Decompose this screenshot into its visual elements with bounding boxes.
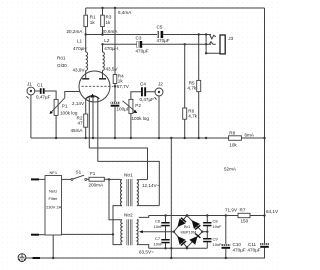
connector J3 contacts [198,33,200,35]
svg-text:C5: C5 [157,25,163,30]
svg-text:100k log: 100k log [132,116,150,121]
svg-text:43,9V: 43,9V [73,67,86,72]
wire P1 wiper to grid [65,92,81,98]
svg-text:1k: 1k [118,79,124,84]
svg-text:100µF: 100µF [117,107,130,112]
connector J1 [27,87,35,95]
capacitor C9 [206,232,208,249]
potentiometer P2 [129,99,133,113]
svg-text:C4: C4 [140,82,146,87]
svg-text:10nF: 10nF [213,242,223,247]
svg-text:1k: 1k [90,20,96,25]
wire DC plus rail y=215.5 [149,215,265,217]
wire heater lead right [97,98,99,161]
wire NF1 bottom pin to chassis [52,235,54,258]
svg-text:C8: C8 [213,219,219,224]
wire neutral rail [113,206,122,245]
svg-text:R1: R1 [90,14,96,19]
svg-text:10nF: 10nF [213,224,223,229]
svg-text:57,7V: 57,7V [117,84,130,89]
svg-text:100k log: 100k log [60,111,78,116]
capacitor C8 [206,216,208,232]
wire right vertical rail [264,8,266,243]
svg-text:R3: R3 [106,14,112,19]
svg-text:470µF: 470µF [233,248,246,253]
wire cathode to R2 [85,99,87,114]
mains stub top left [31,178,39,180]
resistor R6 [184,44,186,138]
connector J3 [220,35,225,54]
capacitor C10 [225,216,227,245]
svg-text:C7: C7 [155,236,161,241]
wire top bus [86,7,265,9]
svg-text:Gl30: Gl30 [57,63,67,68]
mains stub bottom [33,257,41,259]
svg-text:J3: J3 [228,36,233,41]
svg-text:Netz: Netz [49,189,57,194]
svg-text:C9: C9 [213,237,219,242]
tube Rö1 Gl30 envelope [79,71,110,102]
svg-text:6mA: 6mA [245,133,255,138]
ground symbol (protective earth) [18,254,26,262]
diode D lower-left [174,233,186,245]
svg-text:J1: J1 [27,81,32,86]
tube grid (dashed) [82,85,114,87]
svg-text:470µF: 470µF [248,248,261,253]
wire L2/C3 line y=44.3 [103,43,138,45]
capacitor C6 [165,216,167,232]
svg-text:150: 150 [241,219,249,224]
svg-text:1k: 1k [106,20,112,25]
wire NF1 neutral out [62,233,114,235]
wire Ntr2 sec tap (arrow) to AC node [142,231,174,233]
capacitor C11 [260,243,269,245]
svg-text:Filter: Filter [49,196,59,201]
node top bus junctions [101,7,103,9]
svg-text:20,2mA: 20,2mA [67,29,84,34]
svg-text:4,7k: 4,7k [188,86,197,91]
switch S1 [62,178,72,180]
bridge rectifier Br1 KBP10M [174,216,203,248]
svg-text:45mA: 45mA [71,128,84,133]
potentiometer P1 [54,99,58,115]
svg-text:P1: P1 [62,104,68,109]
wire heater lead left [88,97,90,148]
svg-text:0,47µF: 0,47µF [140,97,155,102]
wire J2 sleeve to bus [158,96,160,138]
resistor R7 [238,213,250,217]
wire heater right run [98,161,160,205]
svg-text:F1: F1 [90,171,96,176]
svg-text:KBP10M: KBP10M [181,230,197,235]
svg-text:0,47µF: 0,47µF [36,95,51,100]
tube cathode arc with arrow [86,96,100,99]
inductor L1 [85,35,87,53]
svg-text:200mA: 200mA [89,183,104,188]
svg-text:Rö1: Rö1 [57,56,66,61]
wire P2 top to C4 to J2 [131,92,155,100]
connector J2 [155,88,163,96]
tube anode plate right [99,78,106,80]
mains stub bottom left [31,234,39,236]
resistor R4 [114,8,116,86]
svg-text:10nF: 10nF [154,242,164,247]
svg-text:C11: C11 [248,242,257,247]
diode D upper-right [189,218,201,230]
svg-text:52mA: 52mA [224,167,237,172]
svg-text:C3: C3 [136,36,142,41]
diode D lower-right [189,233,201,245]
svg-text:C10: C10 [233,242,242,247]
svg-text:Br1: Br1 [184,224,191,229]
resistor R3 [102,8,104,35]
resistor R8 [229,136,242,141]
svg-text:4,7k: 4,7k [188,114,197,119]
svg-text:C1: C1 [37,83,43,88]
wire AC2 to C8/C9 [202,231,207,233]
svg-text:L2: L2 [104,38,110,43]
capacitor C4 [141,87,143,96]
svg-text:R8: R8 [229,131,235,136]
svg-text:J2: J2 [158,81,163,86]
wire Ntr1 sec bottom to heater [139,205,160,207]
wire ground bus y=138 [31,137,265,139]
svg-text:63,5V~: 63,5V~ [139,250,154,255]
wire Ntr1 sec top to heater [139,179,148,181]
svg-text:470µF: 470µF [157,38,170,43]
svg-text:43,5V: 43,5V [106,67,119,72]
capacitor C2 [114,86,116,102]
capacitor C1 [40,88,42,94]
wire DC minus rail y=248.3 [149,247,208,249]
svg-text:47: 47 [78,121,84,126]
wire J1 sleeve to bus [30,95,32,138]
svg-text:P2: P2 [135,103,141,108]
diode D upper-left [174,217,186,229]
svg-text:C6: C6 [155,219,161,224]
wire Ntr2 sec bottom to DC minus rail [139,245,149,249]
wire ground to chassis drop [170,138,172,258]
svg-text:NF1: NF1 [50,170,58,175]
svg-text:64,1V: 64,1V [266,209,279,214]
inductor L2 [102,44,104,52]
resistor R1 [85,8,87,35]
svg-text:S1: S1 [76,170,82,175]
wire heater left run [89,148,147,180]
capacitor C5 [157,31,159,38]
svg-text:470µH: 470µH [73,46,87,51]
wire Ntr2 sec top to DC rail [139,216,149,218]
tube anode plate left [82,78,89,80]
resistor R2 [84,114,88,127]
resistor R5 [198,35,200,139]
svg-text:20,6mA: 20,6mA [102,29,119,34]
svg-text:Ntr1: Ntr1 [124,173,133,178]
svg-text:12,14V~: 12,14V~ [142,183,160,188]
svg-text:R7: R7 [240,208,246,213]
svg-text:71,9V: 71,9V [225,208,238,213]
svg-text:L1: L1 [77,39,83,44]
wire live to Ntr2 [109,179,120,219]
svg-text:6,4mA: 6,4mA [118,10,132,15]
capacitor C7 [165,232,167,249]
svg-text:470µH: 470µH [104,46,118,51]
wire C1 to P1 [45,91,57,99]
svg-text:470µF: 470µF [136,49,149,54]
fuse F1 [87,178,109,180]
wire anode bus y=34.5 [86,34,159,36]
node mains live [108,178,110,180]
node 57.7V screen [114,85,117,88]
svg-text:Ntr2: Ntr2 [124,213,133,218]
wire cathode arrow to ground bus [92,97,94,139]
svg-text:10k: 10k [229,143,237,148]
svg-text:230V 2A: 230V 2A [46,205,62,210]
svg-text:2,14V: 2,14V [72,101,85,106]
capacitor C3 [137,41,139,47]
svg-text:10nF: 10nF [154,224,164,229]
filter NF1 [45,176,62,236]
wire J1 tip to C1 [35,90,40,92]
